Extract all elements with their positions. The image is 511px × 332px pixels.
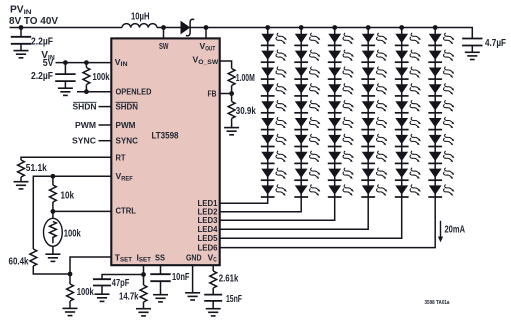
LED D3j column 3 row 10 [328,185,354,197]
LED D2f column 2 row 6 [294,117,320,129]
LED D5b column 5 row 2 [395,50,421,62]
wire SHDN stub [99,106,112,108]
node junction TSET/R5/R6 [68,272,73,277]
LED D1f column 1 row 6 [261,117,287,129]
wire LED6 cathode return to U1 [220,197,436,248]
capacitor C2 2.2uF [55,74,75,81]
svg-text:51.1k: 51.1k [26,163,47,174]
LED D6e column 6 row 5 [428,100,454,112]
svg-text:SW: SW [159,41,169,51]
LED D2g column 2 row 7 [294,134,320,146]
svg-text:SYNC: SYNC [116,136,139,146]
LED D5f column 5 row 6 [395,117,421,129]
LED D6g column 6 row 7 [428,134,454,146]
LED D5e column 5 row 5 [395,100,421,112]
LED D2d column 2 row 4 [294,84,320,96]
capacitor C3 47pF [93,279,111,285]
resistor R8 2.61k [210,271,217,288]
LED D3h column 3 row 8 [328,151,354,163]
svg-text:RT: RT [116,152,127,162]
ground (C2) [58,88,73,95]
svg-text:PWM: PWM [75,120,96,130]
wire PWM stub [99,124,112,126]
ground (C5) [206,309,221,316]
wire LED3 cathode return to U1 [220,197,335,220]
inductor L1 10uH [122,24,157,28]
wire PVIN node to C1 [20,28,22,37]
node junction LED column 3 top [332,25,337,30]
svg-text:FB: FB [208,88,217,98]
wire LED1 cathode return to U1 [220,197,268,203]
wire LED column 6 anode chain [434,28,436,198]
svg-text:5V: 5V [43,58,54,69]
LED D6i column 6 row 9 [428,168,454,180]
svg-text:2.2µF: 2.2µF [31,71,53,82]
LED D1h column 1 row 8 [261,151,287,163]
LED D2h column 2 row 8 [294,151,320,163]
svg-text:LED5: LED5 [198,233,218,243]
ground (R2) [14,182,29,189]
LED D4c column 4 row 3 [361,67,387,79]
LED D1j column 1 row 10 [261,185,287,197]
resistor R6 100k [69,274,71,284]
wire V_O_SW pin to R9 [220,61,232,69]
svg-text:2.2µF: 2.2µF [31,37,53,48]
LED D5c column 5 row 3 [395,67,421,79]
LED D6h column 6 row 8 [428,151,454,163]
node junction PVIN/C1 [19,25,24,30]
LED D3e column 3 row 5 [328,100,354,112]
capacitor C4 10nF [150,274,170,281]
LED D5j column 5 row 10 [395,185,421,197]
LED D6c column 6 row 3 [428,67,454,79]
svg-text:4.7µF: 4.7µF [485,38,506,49]
op-amp U1 LT3598 IC body [111,38,219,265]
ground (R6) [63,308,78,315]
svg-text:OPENLED: OPENLED [116,87,152,97]
ground (C6) [465,52,480,59]
svg-text:10µH: 10µH [131,12,150,23]
LED D5a column 5 row 1 [395,33,421,45]
node junction VOUT pin [204,25,209,30]
svg-text:PWM: PWM [116,120,136,130]
wire VIN to U1 VIN pin [56,62,112,64]
resistor R2 51.1k [18,160,25,177]
LED D5i column 5 row 9 [395,168,421,180]
node junction LED column 2 top [299,25,304,30]
svg-text:3598 TA01a: 3598 TA01a [425,300,450,306]
node junction ISET [141,272,146,277]
LED D3g column 3 row 7 [328,134,354,146]
wire LED4 cathode return to U1 [220,197,369,229]
wire SW pin stub [163,28,165,39]
wire FB pin [220,93,232,95]
LED D4i column 4 row 9 [361,168,387,180]
LED D1b column 1 row 2 [261,50,287,62]
node junction FB [229,91,234,96]
node junction LED column 5 top [399,25,404,30]
svg-text:100k: 100k [64,228,81,239]
LED D6b column 6 row 2 [428,50,454,62]
wire C1 to ground [20,44,22,51]
wire TSET pin (exits left edge) [70,257,111,274]
svg-text:30.9k: 30.9k [236,106,256,117]
svg-text:14.7k: 14.7k [119,292,139,303]
wire GND pin [192,266,194,293]
wire LED column 4 anode chain [367,28,369,198]
node junction SW / diode anode [161,25,166,30]
wire LED column 5 anode chain [401,28,403,198]
wire C5 to ground [212,301,214,309]
wire diode cathode to VOUT node [190,27,268,29]
LED D3i column 3 row 9 [328,168,354,180]
wire LED column 1 anode chain [267,28,269,198]
resistor R9 1.00M [228,69,235,86]
ground (R4) [45,254,60,261]
LED D6j column 6 row 10 [428,185,454,197]
LED D4d column 4 row 4 [361,84,387,96]
wire VOUT rail over LED columns [268,28,473,39]
LED D6a column 6 row 1 [428,33,454,45]
node junction VIN/R1 [84,60,89,65]
wire LED2 cathode return to U1 [220,197,302,212]
svg-text:1.00M: 1.00M [236,73,255,84]
LED D2a column 2 row 1 [294,33,320,45]
node junction LED column 4 top [366,25,371,30]
svg-text:2.61k: 2.61k [219,274,239,285]
svg-text:47pF: 47pF [112,278,130,289]
svg-text:SS: SS [155,252,165,262]
wire VC pin [212,266,214,271]
ground (U1 GND) [185,293,200,300]
wire SYNC stub [99,140,112,142]
node junction VREF/R3 [51,174,56,179]
LED D4b column 4 row 2 [361,50,387,62]
LED D2b column 2 row 2 [294,50,320,62]
resistor R1 100k pull-up [85,63,87,68]
wire C2 to ground [64,81,66,88]
svg-text:CTRL: CTRL [116,205,137,215]
LED D6d column 6 row 4 [428,84,454,96]
LED D1a column 1 row 1 [261,33,287,45]
node junction R1/OPENLED [84,89,89,94]
svg-text:10nF: 10nF [172,272,190,283]
resistor R10 30.9k [231,94,233,102]
LED D3d column 3 row 4 [328,84,354,96]
LED D5g column 5 row 7 [395,134,421,146]
svg-text:20mA: 20mA [445,224,466,235]
wire C3 to ground [101,286,103,295]
wire VOUT pin stub [205,28,207,39]
wire OPENLED pin [77,91,111,93]
resistor R5 60.4k [30,249,37,266]
wire C4 to ground [160,281,162,295]
node junction LED column 6 top [433,25,438,30]
LED D1e column 1 row 5 [261,100,287,112]
LED D3a column 3 row 1 [328,33,354,45]
LED D2c column 2 row 3 [294,67,320,79]
capacitor C1 2.2uF [11,37,31,44]
resistor R7 14.7k [143,275,145,286]
svg-text:GND: GND [186,252,202,262]
wire C2 top lead [64,63,66,75]
LED D4f column 4 row 6 [361,117,387,129]
wire inductor to diode anode [157,27,181,29]
LED D3b column 3 row 2 [328,50,354,62]
LED D3f column 3 row 6 [328,117,354,129]
svg-text:SHDN: SHDN [73,102,97,112]
current arrow 20mA [440,221,442,239]
LED D1d column 1 row 4 [261,84,287,96]
LED D2j column 2 row 10 [294,185,320,197]
ground (C1) [14,51,29,58]
ground (R7) [136,309,151,316]
wire PVIN top rail (left of inductor) [10,27,123,29]
resistor R3 10k [52,176,54,185]
LED D4j column 4 row 10 [361,185,387,197]
LED D2e column 2 row 5 [294,100,320,112]
LED D1g column 1 row 7 [261,134,287,146]
svg-text:100k: 100k [77,287,94,298]
node junction LED column 1 top [265,25,270,30]
ground (C4) [153,295,168,302]
LED D4e column 4 row 5 [361,100,387,112]
svg-text:LED6: LED6 [198,242,218,252]
svg-text:SYNC: SYNC [72,136,96,146]
wire SS pin [160,266,162,274]
capacitor C5 15nF [204,295,222,301]
LED D6f column 6 row 6 [428,117,454,129]
svg-text:10k: 10k [61,190,75,201]
svg-text:SHDN: SHDN [116,102,139,112]
svg-text:60.4k: 60.4k [9,256,29,267]
node junction CTRL/R4 [51,209,56,214]
node junction VIN/C2 [63,60,68,65]
LED D3c column 3 row 3 [328,67,354,79]
capacitor C6 4.7uF [462,39,482,46]
LED D4g column 4 row 7 [361,134,387,146]
wire LED column 2 anode chain [300,28,302,198]
diode D1 (Schottky) [181,21,191,35]
ground (R10) [224,128,239,135]
LED D4h column 4 row 8 [361,151,387,163]
wire CTRL pin [53,210,111,212]
wire LED column 3 anode chain [334,28,336,198]
wire LED5 cathode return to U1 [220,197,402,238]
svg-text:15nF: 15nF [226,294,242,305]
wire ISET pin [143,266,145,275]
ground (C3) [95,294,110,301]
LED D1c column 1 row 3 [261,67,287,79]
svg-text:8V TO 40V: 8V TO 40V [9,16,58,27]
wire ISET node to C3 [102,275,144,280]
svg-text:100k: 100k [93,72,110,83]
LED D5h column 5 row 8 [395,151,421,163]
LED D4a column 4 row 1 [361,33,387,45]
wire RT pin to R2 [21,157,111,160]
LED D2i column 2 row 9 [294,168,320,180]
wire C6 to ground [471,46,473,53]
svg-text:LT3598: LT3598 [152,131,179,141]
LED D5d column 5 row 4 [395,84,421,96]
wire VREF pin to divider [33,176,111,249]
resistor R4 100k NTC thermistor (circled) [52,211,54,218]
LED D1i column 1 row 9 [261,168,287,180]
